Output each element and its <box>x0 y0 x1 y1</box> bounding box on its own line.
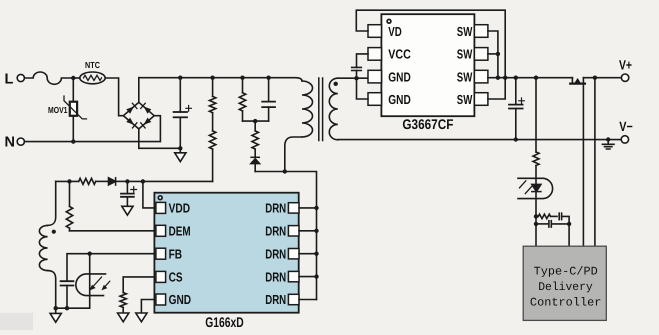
node drain bus tap <box>314 274 318 278</box>
U2 pin SW2 box <box>474 48 488 61</box>
U2 pin GND4 box <box>368 93 382 106</box>
U2 pin VD1 box <box>368 25 382 38</box>
wire L to NTC <box>73 77 80 79</box>
U1 pin DRN4 box <box>288 271 299 281</box>
node v+ sense tap <box>593 76 597 80</box>
wire DRN4 to bus <box>299 276 317 278</box>
op-amp U2 G3667CF body <box>381 14 474 116</box>
wire aux top lead <box>48 181 56 225</box>
wire sec-top to GND2 <box>357 78 369 99</box>
wire R5 to D2 <box>96 180 109 182</box>
node sw-bus2 <box>503 76 507 80</box>
wire vdd to VDD pin <box>143 181 156 208</box>
wire bridge- down <box>139 129 181 148</box>
wire bridge+ to rail <box>138 78 140 103</box>
wire DRN2 to bus <box>299 230 317 232</box>
U1 pin-1 marker <box>158 196 162 200</box>
U1 pin DRN5 box <box>288 294 299 304</box>
svg-text:NTC: NTC <box>85 60 101 70</box>
wire SW1 <box>488 31 498 78</box>
capacitor C1 bulk <box>179 78 181 112</box>
bridge rectifier BR1 diamond <box>123 102 154 129</box>
terminal L <box>17 74 24 81</box>
U1 pin DRN2 box <box>288 226 299 236</box>
U1 pin VDD box <box>156 202 166 213</box>
svg-text:DRN: DRN <box>265 292 286 307</box>
capacitor C3 vdd <box>126 181 128 193</box>
wire fb chain top <box>535 78 537 152</box>
resistor R5 vdd <box>79 178 96 184</box>
optocoupler U3 light arrows <box>93 277 102 287</box>
svg-text:G166xD: G166xD <box>205 314 244 330</box>
wire DRN1 to bus <box>299 207 317 209</box>
ground under aux <box>55 308 57 313</box>
wire V- rail <box>338 139 621 141</box>
capacitor C5 vcc <box>357 54 369 68</box>
node fb opto tap <box>88 252 92 256</box>
node out-cap tap <box>514 76 518 80</box>
transistor Q1 load switch <box>571 78 573 84</box>
op-amp U1 G166xD body <box>154 193 298 313</box>
wire clamp to drain rail <box>255 171 285 173</box>
LED light arrows <box>520 181 532 194</box>
svg-text:MOV1: MOV1 <box>48 105 68 115</box>
bridge diode top-left <box>126 107 134 114</box>
wire gnd pin <box>141 300 156 314</box>
node fb-chain tap <box>534 76 538 80</box>
transformer T1 aux winding <box>39 225 47 270</box>
svg-text:DRN: DRN <box>265 246 286 261</box>
bridge diode top-right <box>144 107 152 114</box>
ground under R7 <box>118 313 129 322</box>
resistor R7 cs <box>120 293 126 308</box>
svg-text:VCC: VCC <box>388 47 411 62</box>
node rail-Rsnub <box>240 76 244 80</box>
terminal V- <box>621 136 628 143</box>
U1 pin FB box <box>156 248 166 259</box>
transformer secondary phase dot <box>334 82 338 86</box>
corner gray block <box>0 313 33 330</box>
wire NTC to bridge <box>105 78 123 116</box>
svg-text:CS: CS <box>169 270 183 285</box>
wire Q1 gate-drop <box>582 78 584 247</box>
node rail-Rstartup <box>210 76 214 80</box>
svg-text:Type-C/PD: Type-C/PD <box>534 265 598 279</box>
node vdd cap junction <box>125 179 129 183</box>
node snubber junction <box>253 119 257 123</box>
svg-text:SW: SW <box>457 24 473 39</box>
wire drain bus <box>285 172 317 300</box>
wire R8 to LED <box>535 166 537 185</box>
bridge diode bottom-left <box>126 118 134 125</box>
node drain bus tap <box>314 229 318 233</box>
wire comp to controller <box>568 224 570 246</box>
U2 pin SW1 box <box>474 25 488 38</box>
node sec-top junction <box>354 76 358 80</box>
wire SW4 <box>488 78 505 99</box>
resistor R6 dem <box>69 181 71 206</box>
U2 pin GND3 box <box>368 70 382 83</box>
U1 pin DRN1 box <box>288 203 299 213</box>
node sw-bus1 <box>496 76 500 80</box>
node aux gnd junction <box>54 306 58 310</box>
wire HV+ rail <box>139 78 302 81</box>
wire snubber node <box>243 120 269 122</box>
wire DRN5 to bus <box>299 299 317 301</box>
capacitor C6 output <box>515 78 517 105</box>
node SW2 junction <box>496 52 500 56</box>
svg-text:SW: SW <box>457 47 473 62</box>
terminal V+ <box>621 74 628 81</box>
wire aux bottom lead <box>48 271 56 309</box>
resistor R3 snubber <box>242 78 244 93</box>
U2 pin-1 marker <box>387 19 391 23</box>
node C1 bottom junction <box>178 146 182 150</box>
svg-text:GND: GND <box>388 69 411 84</box>
capacitor C8 comp <box>536 223 548 225</box>
ground under C3 <box>122 206 133 215</box>
controller U4 Type-C box <box>523 246 606 320</box>
svg-text:VDD: VDD <box>169 201 191 216</box>
U1 pin GND box <box>156 294 166 305</box>
U2 pin SW4 box <box>474 93 488 106</box>
node drain bus tap <box>314 252 318 256</box>
transformer T1 core <box>319 78 323 141</box>
wire cs line <box>123 277 156 293</box>
node vdd pin tap <box>141 179 145 183</box>
wire VD top loop <box>356 10 505 78</box>
node rail-C1 <box>178 76 182 80</box>
thermistor NTC <box>80 72 105 84</box>
optocoupler U3 collector-emitter <box>89 254 91 309</box>
svg-text:L: L <box>5 72 14 88</box>
U2 pin VCC2 box <box>368 48 382 61</box>
svg-text:DEM: DEM <box>169 224 191 239</box>
transformer T1 secondary winding <box>329 78 338 140</box>
svg-text:GND: GND <box>388 92 411 107</box>
resistor R9 comp <box>538 214 550 218</box>
node MOV-N junction <box>71 139 75 143</box>
node L-MOV junction <box>71 76 75 80</box>
resistor R1 startup upper <box>212 78 214 97</box>
capacitor C2 snubber <box>268 78 270 102</box>
node v- gnd tap <box>606 137 610 141</box>
svg-text:DRN: DRN <box>265 269 286 284</box>
U2 pin SW3 box <box>474 70 488 83</box>
bridge diode bottom-right <box>144 118 152 125</box>
optocoupler U3 LED enclosure <box>518 178 553 198</box>
node rail-Csnub <box>266 76 270 80</box>
node comp A <box>534 214 538 218</box>
svg-text:G3667CF: G3667CF <box>402 116 453 132</box>
LED D3 <box>532 184 541 191</box>
diode D2 vdd <box>109 178 116 185</box>
node comp B <box>534 222 538 226</box>
ground under GND pin <box>136 313 147 322</box>
U1 pin DRN3 box <box>288 249 299 259</box>
capacitor C4 fb <box>61 281 74 285</box>
wire V+ line <box>488 77 573 79</box>
varistor MOV1 body <box>70 102 77 116</box>
svg-text:VD: VD <box>388 24 402 39</box>
svg-text:Delivery: Delivery <box>538 280 593 294</box>
resistor R2 startup lower <box>212 113 214 131</box>
svg-text:SW: SW <box>457 69 473 84</box>
node fb-cap gnd junction <box>65 306 69 310</box>
U1 pin DEM box <box>156 225 166 236</box>
capacitor C7 comp <box>551 215 558 217</box>
U1 pin CS box <box>156 271 166 282</box>
aux winding phase dot <box>52 230 56 234</box>
wire aux-top horizontal <box>56 180 79 182</box>
resistor R4 clamp <box>254 121 256 131</box>
svg-text:V−: V− <box>619 119 633 134</box>
diode D1 clamp <box>251 156 259 158</box>
node comp right junction <box>567 222 571 226</box>
wire V+ line right <box>583 77 621 79</box>
terminal N <box>17 138 24 145</box>
wire SW2 <box>488 53 498 55</box>
svg-text:DRN: DRN <box>265 224 286 239</box>
wire N line <box>24 116 160 142</box>
wire MOV vertical <box>72 78 74 142</box>
node drain bus tap <box>314 206 318 210</box>
wire LED to comp <box>535 192 537 247</box>
node Rdem tap <box>67 179 71 183</box>
resistor R8 led <box>533 152 539 166</box>
svg-text:N: N <box>5 135 15 151</box>
optocoupler U3 phototransistor enclosure <box>76 274 106 296</box>
svg-text:SW: SW <box>457 92 473 107</box>
wire fb line <box>67 254 156 282</box>
ground earth V- <box>607 140 609 145</box>
node out-cap gnd <box>514 137 518 141</box>
wire dem line <box>70 230 157 232</box>
svg-text:GND: GND <box>169 292 192 307</box>
wire secondary top to GND pins <box>338 77 368 79</box>
svg-text:Controller: Controller <box>530 295 602 309</box>
svg-text:FB: FB <box>169 246 183 261</box>
fuse F1 <box>24 72 73 84</box>
wire DRN3 to bus <box>299 253 317 255</box>
ground primary under C1 <box>179 148 181 153</box>
node drain rail junction <box>283 169 287 173</box>
wire vdd node to startup <box>127 180 212 182</box>
svg-text:V+: V+ <box>619 58 632 73</box>
wire v+ sense drop <box>594 78 596 247</box>
wire pri-gnd rail <box>56 307 90 309</box>
transformer T1 primary winding <box>302 81 313 137</box>
svg-text:DRN: DRN <box>265 201 286 216</box>
